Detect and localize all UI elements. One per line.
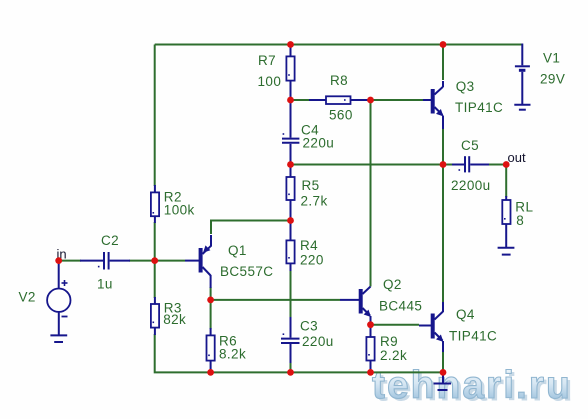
arrow Q4 emitter (436, 335, 443, 342)
svg-text:2200u: 2200u (451, 178, 491, 193)
junction Q4 emitter / ground rail (440, 369, 447, 376)
transistor Q3 (423, 81, 443, 129)
wire left rail lower (155, 334, 443, 372)
svg-text:BC557C: BC557C (220, 264, 273, 279)
svg-text:Q3: Q3 (456, 79, 475, 94)
battery V1 (515, 44, 530, 105)
wire C5 to out (488, 164, 506, 166)
resistor RL (502, 196, 510, 247)
resistor R4 (286, 222, 294, 271)
svg-text:100k: 100k (164, 203, 195, 218)
wire C3 bottom (290, 362, 292, 372)
svg-text:220u: 220u (303, 136, 335, 151)
source V2 (47, 262, 70, 335)
transistor Q4 (419, 302, 443, 352)
svg-text:Q4: Q4 (456, 307, 475, 322)
resistor R5 (286, 166, 294, 219)
svg-text:29V: 29V (540, 72, 565, 87)
wire Q4 emitter to ground rail (442, 352, 444, 372)
wire input row left (59, 260, 81, 262)
ground V2 (50, 335, 67, 342)
svg-text:1u: 1u (97, 277, 113, 292)
ground RL (498, 248, 515, 255)
junction R7 bottom / R8 / C4 (287, 97, 294, 104)
transistor Q2 (340, 287, 371, 324)
junction R9 bottom / ground rail (367, 369, 374, 376)
junction C3 bottom / ground rail (287, 369, 294, 376)
junction Q3 emitter / C5 / Q4 collector (440, 161, 447, 168)
svg-text:C3: C3 (300, 319, 318, 334)
svg-text:220: 220 (300, 253, 324, 268)
svg-text:V2: V2 (19, 290, 36, 305)
junction node out / C5 / RL (503, 161, 510, 168)
transistor Q1 (185, 235, 211, 288)
wire Q1 collector to Q2 base (211, 287, 340, 300)
junction R2 / R3 / Q1 base (151, 257, 158, 264)
capacitor C5 (452, 156, 489, 172)
svg-text:82k: 82k (163, 312, 186, 327)
wire Q3 emitter to out node (442, 128, 444, 165)
wire left rail upper (154, 45, 156, 187)
junction R5 / R4 / Q1 emitter (287, 217, 294, 224)
resistor R2 (151, 185, 159, 223)
svg-text:Q2: Q2 (383, 277, 402, 292)
ground V1 (514, 105, 530, 110)
svg-text:tehnari.ru: tehnari.ru (372, 364, 572, 407)
junction Q3 collector / V+ rail (440, 41, 447, 48)
resistor R6 (207, 328, 215, 371)
capacitor C3 (281, 317, 300, 363)
watermark tehnari.ru (372, 364, 575, 410)
wire Q2 collector column (370, 100, 372, 287)
wire R4 to C3 (290, 270, 292, 318)
wire Q1 emitter feedback row (211, 221, 291, 235)
junction node in / V2 / C2 (55, 257, 62, 264)
wire mid row y164 (291, 164, 453, 166)
svg-text:R7: R7 (258, 53, 276, 68)
svg-text:560: 560 (329, 108, 353, 123)
arrow Q2 emitter (364, 310, 371, 317)
resistor R8 (309, 96, 368, 104)
capacitor C4 (282, 102, 299, 162)
svg-text:R9: R9 (380, 334, 398, 349)
arrow Q1 emitter (203, 245, 210, 252)
svg-text:C2: C2 (101, 233, 119, 248)
junction R6 bottom / ground rail (207, 369, 214, 376)
wire left rail mid (154, 222, 156, 298)
arrow Q3 emitter (436, 109, 443, 116)
svg-text:R4: R4 (300, 238, 318, 253)
wire R8 to Q3 base (367, 99, 423, 101)
capacitor C2 (80, 252, 130, 270)
wire Q3 collector stub (442, 45, 444, 81)
svg-text:2.7k: 2.7k (301, 194, 328, 209)
junction Q1 collector / R6 / Q2 base (207, 297, 214, 304)
wire top rail (155, 44, 523, 46)
resistor R9 (366, 326, 374, 371)
junction C4 bottom / R5 top (287, 161, 294, 168)
svg-text:Q1: Q1 (228, 243, 247, 258)
svg-text:2.2k: 2.2k (380, 348, 407, 363)
resistor R7 (286, 46, 294, 98)
svg-text:R8: R8 (330, 73, 348, 88)
wire R6 top (210, 300, 212, 329)
svg-text:BC445: BC445 (379, 299, 422, 314)
wire Q3 emitter down to Q4 collector (442, 165, 444, 304)
svg-text:TIP41C: TIP41C (455, 100, 503, 115)
svg-text:C5: C5 (461, 138, 479, 153)
svg-text:8.2k: 8.2k (219, 347, 246, 362)
wire R8 row (291, 99, 311, 101)
svg-text:R5: R5 (302, 178, 320, 193)
svg-text:V1: V1 (543, 51, 560, 66)
resistor R3 (151, 297, 159, 335)
junction R8 / Q3 base / Q2 collector (367, 97, 374, 104)
wire out node down to RL (505, 165, 507, 198)
wire input row right (129, 260, 185, 262)
svg-text:100: 100 (258, 74, 282, 89)
ground bottom rail (434, 373, 452, 390)
wire Q2 emitter to Q4 base (371, 324, 420, 326)
junction R7 top / V+ rail (287, 41, 294, 48)
svg-text:TIP41C: TIP41C (449, 329, 497, 344)
svg-text:out: out (508, 150, 526, 165)
junction Q2 emitter / R9 / Q4 base (367, 321, 374, 328)
svg-text:8: 8 (516, 213, 524, 228)
svg-text:220u: 220u (302, 334, 334, 349)
